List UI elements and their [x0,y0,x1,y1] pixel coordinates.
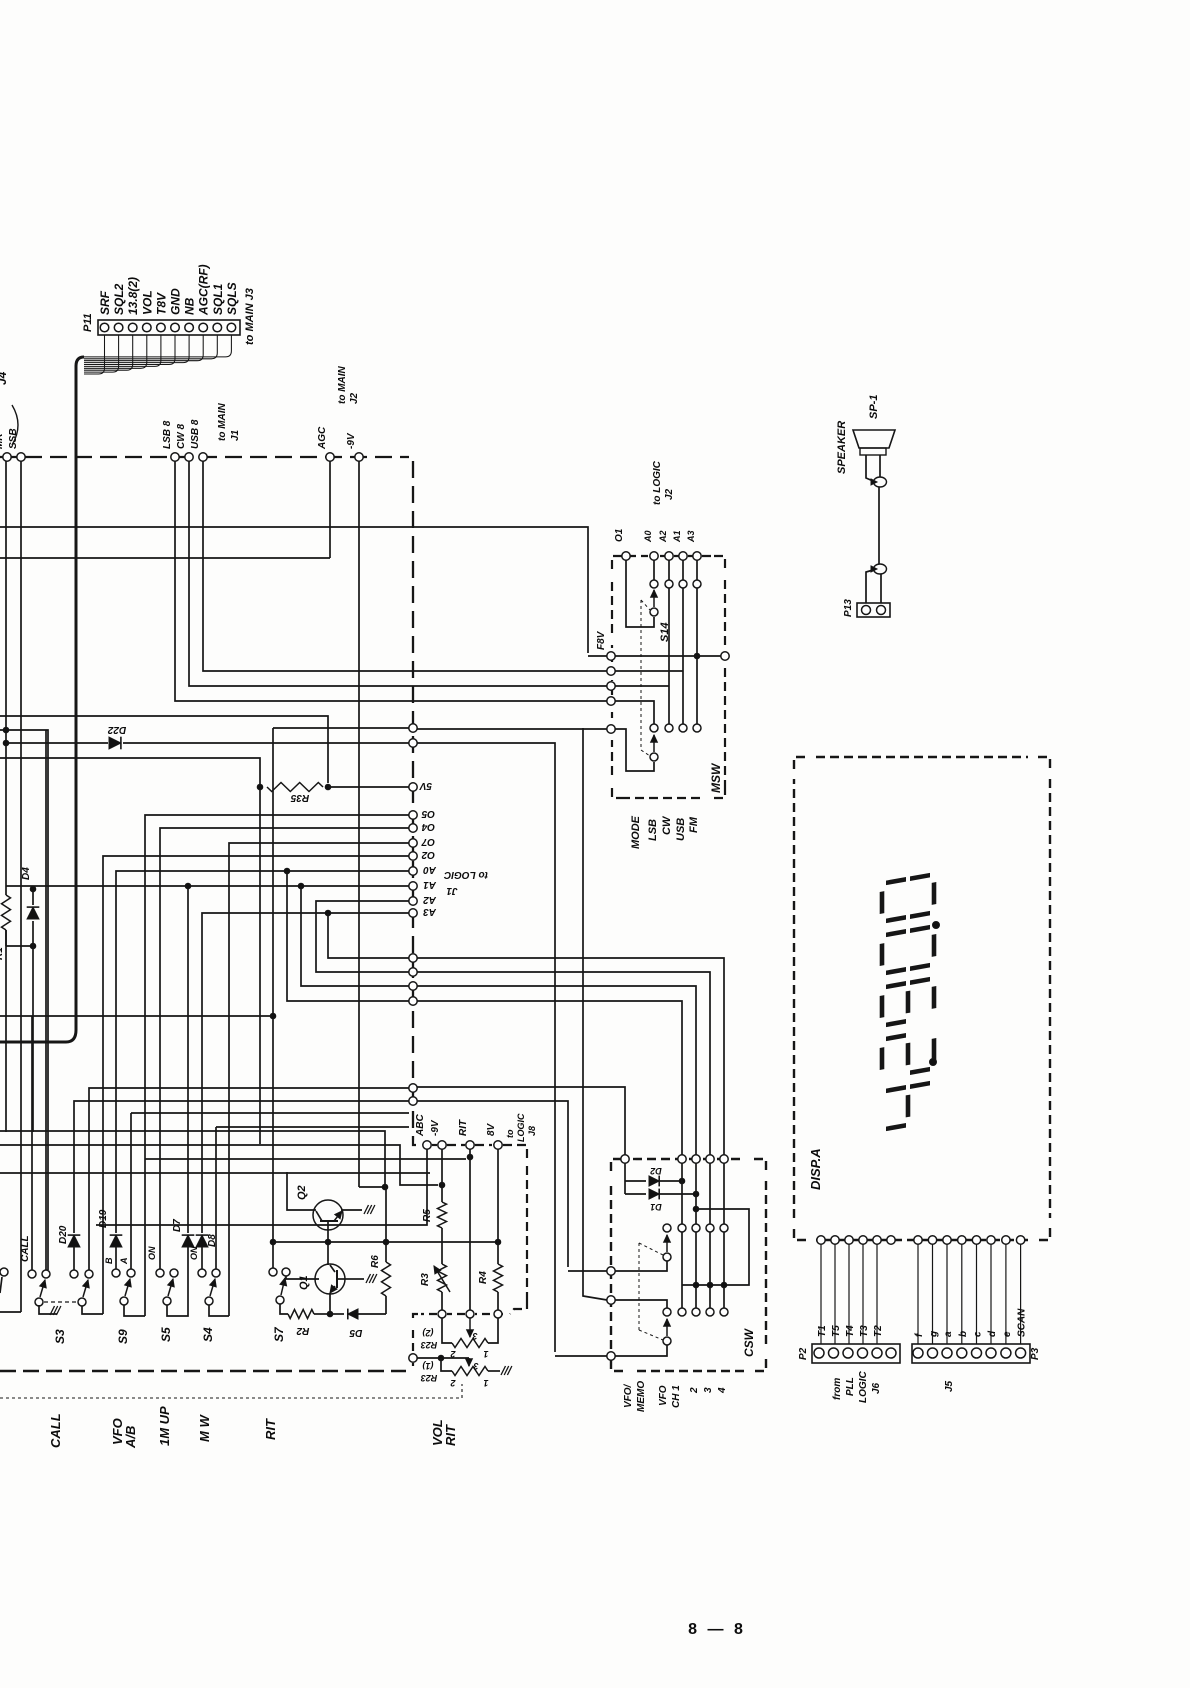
svg-text:Q2: Q2 [296,1185,308,1200]
wire SSB exit left [0,1311,21,1313]
node A1 [409,882,417,890]
svg-text:S9: S9 [116,1329,130,1344]
node x413 y1088 [409,1084,417,1092]
S3 link dashed [44,1301,77,1303]
wire to CSW top-left terminal [568,1270,607,1272]
node DISP.A pin [972,1236,980,1244]
svg-text:T8V: T8V [154,292,168,315]
junction A1 loop [298,883,304,889]
node DISP.A pin [873,1236,881,1244]
node CW B [185,453,193,461]
svg-text:to MAIN J3: to MAIN J3 [244,288,256,345]
wire DISP.A to J5 [917,1244,919,1344]
svg-text:(1): (1) [422,1361,433,1371]
svg-text:R5: R5 [422,1209,433,1222]
switch S4 pole [205,1297,213,1305]
node O2 [409,852,417,860]
wire 8V down [497,1149,499,1242]
wire CSW col x696 [695,1163,697,1224]
wire P11 pin [84,335,203,361]
wire DISP.A to P2 [862,1244,864,1344]
node A2 return [409,968,417,976]
wire y1088 right to CSW [417,1087,625,1155]
junction MR/x48 feed [3,727,9,733]
svg-text:PLL: PLL [845,1377,856,1396]
wire y1173 [0,1172,430,1174]
node -9V bracket [438,1141,446,1149]
node MSW CW terminal [607,682,615,690]
wire S3 pole2 riser [82,1305,103,1314]
svg-text:T5: T5 [831,1325,842,1337]
svg-text:SQL2: SQL2 [112,283,126,315]
wire A2 loop [316,901,409,972]
svg-text:NB: NB [183,297,197,315]
wire DISP.A to P2 [834,1244,836,1344]
wire DISP.A to J5 [1005,1244,1007,1344]
wire FM feed right [417,728,607,730]
wire DISP.A to J5 [976,1244,978,1344]
switch S7 contact 1 [269,1268,277,1276]
node MSW LSB terminal [607,667,615,675]
wire DISP.A to P2 [820,1244,822,1344]
wire A0 stub [653,560,655,580]
svg-text:R2: R2 [296,1325,309,1336]
switch CSW lower arm [666,1319,668,1336]
wire MR to S3 riser [0,730,48,1270]
node CSW top terminals [621,1155,629,1163]
wire RIT down [469,1149,471,1310]
wire S7 contact to Q1 base [286,1276,319,1279]
junction y1242 right [495,1239,501,1245]
wire P11 pin [84,335,161,366]
wire F8V feed [588,655,607,657]
switch S3 contacts [28,1270,36,1278]
node F8V right [721,652,729,660]
switch S3 pole 1 [35,1298,43,1306]
svg-text:CW 8: CW 8 [176,424,187,449]
svg-text:S4: S4 [201,1327,215,1342]
wire A0 left [116,871,409,1233]
svg-text:CW: CW [661,815,673,835]
switch S3 pole 2 [78,1298,86,1306]
speaker plug lower [874,564,887,574]
wire F8V across [615,655,721,657]
node CSW left terminal 3 [607,1352,615,1360]
decimal point lower [930,1059,937,1066]
svg-text:to LOGIC: to LOGIC [443,869,488,880]
svg-text:J1: J1 [446,885,458,896]
svg-text:R3: R3 [420,1273,431,1286]
wire x583 vertical [583,728,607,1300]
node LSB B [171,453,179,461]
wire MR vertical [5,461,7,895]
svg-text:VFO/: VFO/ [623,1383,634,1408]
svg-text:1M UP: 1M UP [157,1406,172,1446]
7-segment digit 2 [882,1030,934,1077]
wire CSW col x724 [723,1163,725,1224]
resistor R4 [494,1264,503,1292]
svg-text:T3: T3 [859,1325,870,1337]
node DISP.A pin [943,1236,951,1244]
node A0 return [409,997,417,1005]
wire LSB B down [175,461,607,701]
svg-text:USB 8: USB 8 [190,419,201,449]
wire O2 left [103,856,409,1314]
junction R6 node [382,1184,388,1190]
node x413 y1101 [409,1097,417,1105]
wire DISP.A to J5 [932,1244,934,1344]
svg-text:A0: A0 [423,864,437,875]
wire O4 left [160,828,409,1269]
wire A3 left [202,913,409,1233]
wire R1 to D4 [6,945,33,947]
node O1 [622,552,630,560]
svg-text:CSW: CSW [742,1327,756,1357]
node R23(2) terminals [438,1310,446,1318]
svg-text:MODE: MODE [630,815,642,849]
node DISP.A pin [831,1236,839,1244]
svg-text:-9V: -9V [430,1119,441,1136]
wire O7 left [229,843,409,1316]
junction Q1 emitter node [327,1311,333,1317]
node DISP.A pin [987,1236,995,1244]
svg-text:S3: S3 [53,1329,67,1344]
junction VOL [438,1355,444,1361]
svg-text:e: e [1002,1331,1013,1337]
svg-text:1: 1 [483,1378,488,1388]
wire P11 pin [84,335,133,370]
resistor R5 [438,1202,447,1228]
svg-text:GND: GND [169,288,183,315]
switch S7 pole [276,1296,284,1304]
svg-text:VOL: VOL [140,290,154,315]
node USB B [199,453,207,461]
switch CSW upper pole [663,1253,671,1261]
dashed bracket right edge [526,1166,528,1300]
node DISP.A pin [845,1236,853,1244]
junction bus dots [693,1282,699,1288]
svg-text:R23: R23 [421,1373,438,1383]
switch S5 pole [163,1297,171,1305]
wire AGC stub [329,461,331,558]
svg-text:ON: ON [147,1246,157,1260]
svg-text:3: 3 [703,1387,714,1393]
ground R23(1) [501,1366,506,1375]
wire LSB to A1 col [615,670,683,672]
junction MR/D22 [3,740,9,746]
node S14 upper contact [650,580,658,588]
wire D5 to R6 [385,1296,387,1314]
wire A3 loop [328,913,409,958]
svg-text:DISP.A: DISP.A [808,1148,823,1190]
diode D8 [201,1247,203,1269]
switch S3 contact D20 [70,1270,78,1278]
wire to CSW bottom terminal [555,1355,607,1357]
svg-text:A1: A1 [672,530,682,543]
wire y1101 right [417,1101,568,1267]
wire bus y1016 [0,1015,273,1017]
wire DISP.A to P2 [876,1244,878,1344]
wire P11 pin [84,335,147,368]
svg-text:D4: D4 [21,867,32,880]
7-segment digit 0 [882,874,934,921]
junction D4 bottom [30,943,36,949]
svg-text:LSB: LSB [647,819,659,841]
wire VOL to R23(1) [417,1357,469,1359]
node DISP.A pin [958,1236,966,1244]
wire USB B down [203,461,607,671]
wire R6 up [385,1187,387,1262]
node DISP.A pin [1016,1236,1024,1244]
wire R2 to node [314,1313,330,1315]
wire O1 to pole [626,560,654,627]
switch S14 upper arm [653,590,655,607]
wire S3 riser B [45,730,47,1270]
node DISP.A pin [914,1236,922,1244]
CSW mechanical link [638,1243,640,1330]
wire DISP.A to J5 [990,1244,992,1344]
wire left terminal 2 to contact [615,1300,667,1308]
dashed bracket to LOGIC J8 top [413,1140,421,1145]
svg-text:M W: M W [197,1414,212,1442]
svg-text:c: c [973,1331,984,1337]
svg-text:a: a [943,1331,954,1337]
wire -9V chain [441,1149,443,1202]
node DISP.A pin [817,1236,825,1244]
display module DISP.A outline [794,757,806,769]
switch S5 contact ON [156,1269,164,1277]
wire upper pole out [615,1261,667,1271]
wire bus y758 [0,758,260,1144]
junction A3 loop [325,910,331,916]
node DISP.A pin [859,1236,867,1244]
svg-text:B: B [104,1257,114,1264]
svg-text:T1: T1 [817,1325,828,1337]
wire S9/RIT line [145,1158,466,1160]
wire lower pole out [615,1345,667,1356]
svg-text:A0: A0 [643,530,653,543]
svg-text:D20: D20 [58,1225,69,1244]
wire bus y1127 [216,1126,409,1128]
switch S9 pole [120,1297,128,1305]
svg-text:O1: O1 [614,528,625,542]
wire CALL riser [31,1016,33,1270]
svg-text:A2: A2 [423,894,437,905]
wire CSW D2 branch [624,1163,626,1194]
wire DISP.A to P2 [848,1244,850,1344]
svg-text:R4: R4 [478,1271,489,1284]
svg-text:8 — 8: 8 — 8 [688,1621,746,1638]
svg-text:CALL: CALL [20,1235,31,1262]
svg-text:D1: D1 [650,1202,662,1212]
junction D2 [679,1178,685,1184]
junction R6/y1242 [383,1239,389,1245]
S14 mechanical link [640,600,642,750]
svg-text:to LOGIC: to LOGIC [652,460,663,505]
ground S3 [50,1306,55,1315]
node CSW left terminal 2 [607,1296,615,1304]
svg-text:RIT: RIT [263,1418,278,1440]
svg-text:J5: J5 [944,1380,955,1392]
diode D5 [330,1313,344,1315]
wire A3 column [696,560,698,580]
transistor Q1 [315,1264,345,1294]
node A1 top [679,552,687,560]
wire S9 pole out [124,1305,145,1316]
svg-text:F8V: F8V [596,630,607,650]
wire A1 loop [301,886,409,986]
speaker SP-1 horn [853,430,895,448]
svg-text:D8: D8 [207,1234,218,1247]
svg-text:MR: MR [0,433,5,449]
wire MR vertical lower [5,930,7,1132]
diode D19 [115,1247,117,1269]
svg-text:A: A [119,1258,129,1266]
svg-text:J2: J2 [349,392,360,404]
node A2 top [665,552,673,560]
svg-text:A1: A1 [423,879,437,890]
diode D22 [6,742,108,744]
svg-text:3: 3 [472,1331,477,1341]
junction R35 left [257,784,263,790]
wire P11 pin [84,335,119,372]
dashed box main right edge [412,461,414,1140]
svg-text:O7: O7 [421,836,435,847]
svg-text:SQLS: SQLS [225,282,239,315]
switch box MSW outline [612,556,648,569]
node D22 crossing [409,739,417,747]
diode D20 [73,1247,75,1270]
node -9V [355,453,363,461]
svg-text:SRF: SRF [98,290,112,315]
junction D1 [693,1191,699,1197]
switch S3 contact B2 [85,1270,93,1278]
switch S14 lower arm [653,735,655,752]
wire CSW col x710 [709,1163,711,1224]
svg-text:J6: J6 [871,1382,882,1394]
node A0 [409,867,417,875]
wire bus y1113 [131,1112,409,1114]
transistor Q2 [313,1200,343,1230]
svg-text:A3: A3 [686,530,696,543]
junction -9V line [439,1182,445,1188]
node F8V [607,652,615,660]
wire bus y527 [0,527,588,653]
resistor R1 [2,895,11,930]
wire DISP.A to J5 [946,1244,948,1344]
node S14 lower contacts [650,724,658,732]
node A2 [409,897,417,905]
connector P13 [857,603,890,617]
wire O5 left [145,815,409,1316]
svg-text:FM: FM [688,816,700,833]
wire CW to A2 col [615,685,669,687]
decimal point upper [933,922,940,929]
resistor R3 variable [438,1264,447,1292]
wire y1088 left [89,1088,409,1270]
wire ABC down [96,1149,427,1225]
svg-text:13.8(2): 13.8(2) [126,277,140,315]
speaker plug upper [874,477,887,487]
wire A1 left [6,885,409,887]
svg-text:J2: J2 [664,488,675,500]
switch S14 lower pole [650,753,658,761]
node SSB [17,453,25,461]
svg-text:J1: J1 [230,429,241,441]
svg-text:S14: S14 [659,622,671,642]
svg-text:P13: P13 [843,599,854,617]
wire y1242 bus [273,1241,498,1243]
diode D4 [32,921,34,946]
wire A2 return right [417,972,710,1155]
svg-text:P2: P2 [798,1347,809,1360]
wire A3 return right [417,958,724,1155]
node A3 [409,909,417,917]
node A1 return [409,982,417,990]
svg-text:SQL1: SQL1 [211,283,225,315]
svg-text:to MAIN: to MAIN [337,365,348,404]
junction x696 y1209 [693,1206,699,1212]
svg-text:RIT: RIT [443,1424,458,1446]
junction Q link y1242 [325,1239,331,1245]
svg-text:RIT: RIT [458,1119,469,1136]
wire R35 to 5V [328,786,409,788]
node O4 [409,824,417,832]
svg-text:R35: R35 [290,792,309,803]
diode D1 [625,1193,646,1195]
svg-text:CH 1: CH 1 [671,1385,682,1408]
svg-text:g: g [929,1331,940,1338]
svg-text:ON: ON [189,1246,199,1260]
wire CSW col x682 [681,1163,683,1224]
svg-text:S5: S5 [159,1327,173,1342]
dashed box main bottom edge [0,1370,406,1373]
svg-text:d: d [987,1330,998,1337]
svg-text:-9V: -9V [346,432,357,449]
svg-text:SCAN: SCAN [1017,1308,1028,1337]
wire A2 column [668,560,670,580]
node A0 top [650,552,658,560]
svg-text:D22: D22 [107,724,126,735]
svg-text:O2: O2 [421,849,435,860]
svg-text:4: 4 [717,1387,728,1394]
wire P11 pin [84,335,217,359]
svg-text:Q1: Q1 [298,1275,310,1290]
wire -9V jog to R6 node [359,1186,385,1188]
node CSW middle contacts [663,1224,671,1232]
svg-text:A2: A2 [658,530,668,543]
node CSW lower contacts [663,1308,671,1316]
svg-text:1: 1 [483,1349,488,1359]
dashed bracket bottom row [475,1313,503,1315]
junction A0 loop [284,868,290,874]
node ABC [423,1141,431,1149]
wire Q2-Q1 link [327,1240,329,1265]
svg-text:USB: USB [675,818,687,841]
wire bus y1131 [0,1131,385,1187]
svg-text:LSB 8: LSB 8 [162,420,173,449]
connector P11 [98,320,240,335]
wire S7 pole out [280,1304,288,1314]
switch CSW lower pole [663,1337,671,1345]
svg-text:2: 2 [450,1378,456,1388]
svg-text:P11: P11 [82,313,94,332]
node O5 [409,811,417,819]
wire speaker cable [878,487,880,564]
resistor R6 [382,1262,391,1296]
wire S4 pole out [209,1305,229,1316]
svg-text:T2: T2 [873,1325,884,1337]
